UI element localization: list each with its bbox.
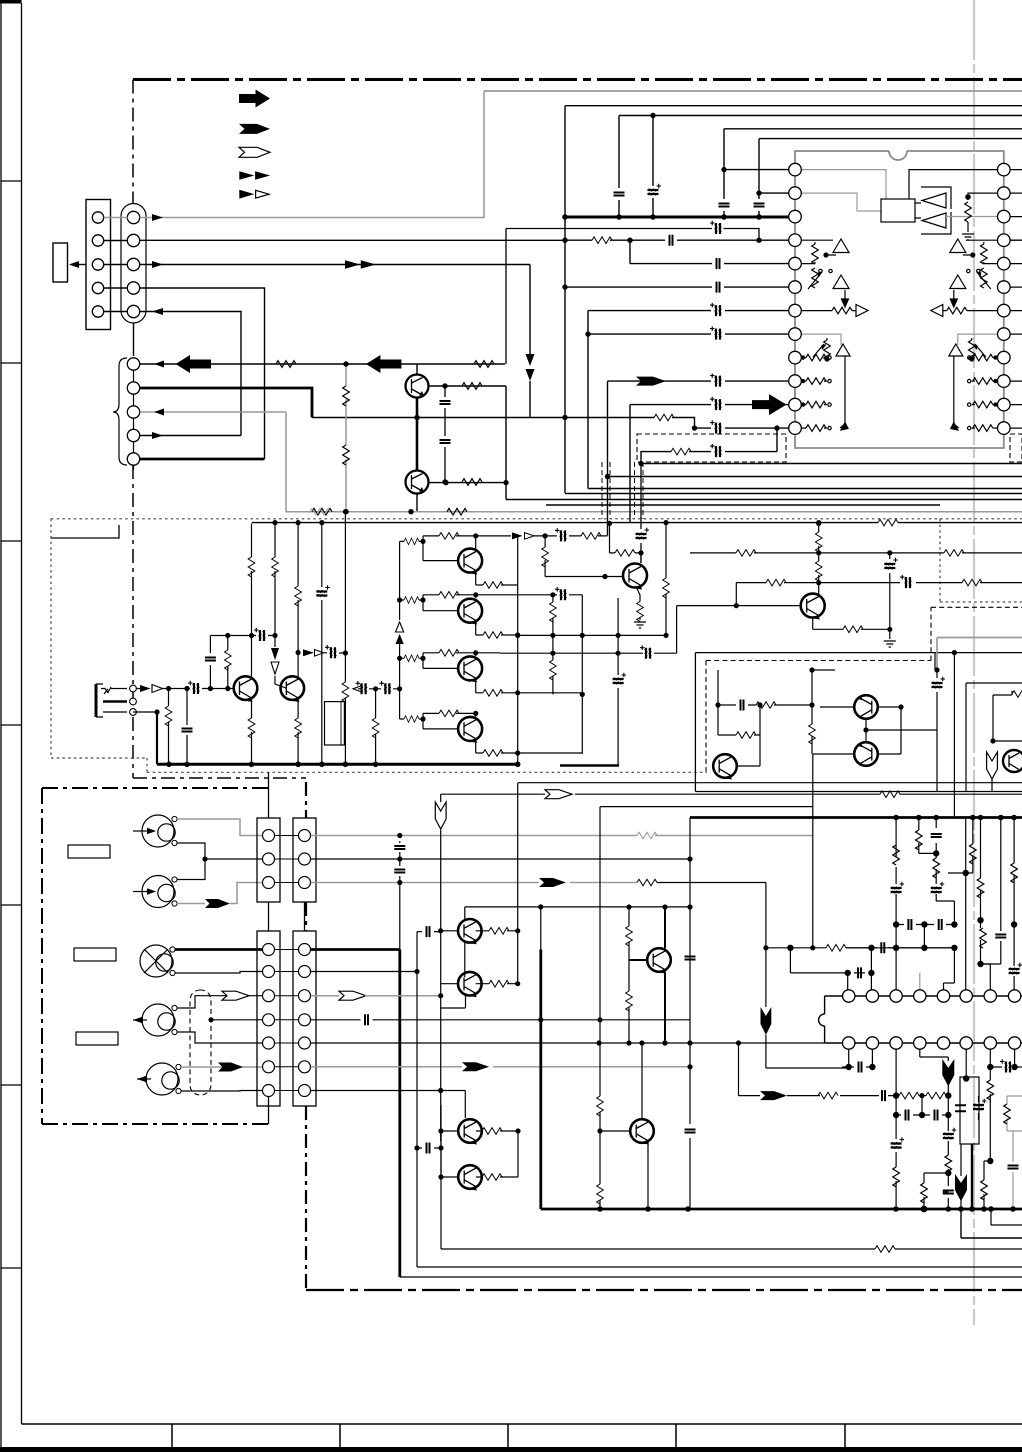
top-left black cap [0,0,22,4]
vertical 275 with down arrows to Q2 base [275,524,286,688]
bottom long lines [400,1276,1022,1278]
row 417.5 to pin12 [565,418,789,429]
legend flag arrow solid [239,124,270,134]
pin6 row [565,286,789,288]
ladder row 3 [400,653,500,669]
pin circles [92,211,139,317]
dashed box at IC1 bottom-left [637,434,786,462]
pin8 row [588,333,789,335]
Q pair (470,930.8)/(470,983.7) [416,932,418,1267]
emitter to ground [813,618,890,630]
big left block arrow [176,355,211,373]
gray wire 228.5 from vertical 506 [506,229,759,365]
wires right of connector [311,835,813,837]
open flag arrows on row 995.7 [222,991,249,1000]
page frame: left margin column [1,0,22,1452]
inter-connector links [275,836,299,1091]
row4 with right arrow [140,435,241,437]
wire pin3 [104,264,530,266]
wire y=128.8 + vertical 724 [724,129,1022,217]
lamp 2 [133,876,175,908]
lamp 4 [133,1004,175,1036]
bias dividers below input [168,689,170,765]
lamp 5 [137,1063,179,1095]
pin4 row: from CN101 pin2 [565,239,789,241]
tab corner solid [51,525,119,538]
IC2 pin circles [843,990,1021,1049]
row 1090.5 [311,1091,466,1119]
vertical 321.8 with ecap [321,524,323,765]
Q 812.7,605.6 cluster [818,523,820,594]
row2 thick [140,388,312,418]
resistors on row1 [276,361,494,368]
dashed cable bundle [190,990,211,1095]
connector body left [86,200,111,330]
right edge network [966,683,1022,792]
legend triangle solid+open [239,190,254,199]
vertical 345.4 [344,512,346,765]
row 1019.8 [311,1019,690,1021]
double arrows on pin3 wire [345,260,376,269]
transistor Q dashed-box [713,754,737,778]
ladder row 2 [400,595,583,754]
network below IC2 [842,1049,1022,1212]
gray wire 637.5 [937,638,1022,671]
row 995.7 gray [311,995,441,997]
vertical 611.8 to resistor feed [610,523,642,553]
transistor Q pair-B top [458,1119,482,1143]
transistor Q ladder3 [458,656,482,680]
ecap at 935,688 area [934,653,936,670]
below-bus drops [961,1209,1022,1238]
legend flag arrow open [239,147,270,157]
second big left arrow on row1 [366,355,401,373]
wire pin5 [104,312,241,436]
bottom border line [22,1423,1022,1425]
row 1043 [311,1042,825,1044]
dashed verticals under dashed box [602,462,643,519]
legend block arrow solid [239,90,270,108]
Q at 642,1131 [600,1112,630,1209]
open chevron down at 992 [987,752,998,779]
gray fold line vertical [973,0,975,1325]
pin1 row wire [724,169,789,171]
tall rect + thick drop [960,1077,979,1144]
line 635.5 with cap/res risers [210,635,275,637]
transistor Q pair-A top [458,919,482,943]
row 582.6 [736,582,1022,584]
pin7 row + vertical 588 [588,311,789,489]
row 552.9 [690,553,1022,629]
vertical double-down-arrow line at x=530 [529,265,531,355]
transistor Q right-edge (partial) [1003,750,1022,772]
legend double triangle solid [239,171,270,180]
transistor Q amp1 [234,676,258,700]
row 605.6 base [654,606,801,654]
VCA blocks [801,239,998,317]
wire y=138.6 + vertical 759 [759,139,1022,217]
pin11 row + block arrow + vertical 630b [630,405,789,522]
wire y=115.5 + verticals 619,653 [619,116,1022,218]
vertical 666 network [665,523,667,636]
ladder row 4 [400,713,476,729]
transistor Q pair-B bottom [458,1165,482,1189]
bottom tick marks [172,1424,845,1447]
small rect terminal left [53,243,68,282]
transistor Q PNP1 [854,695,878,719]
caps between rows at 399.8 [399,841,401,950]
IC1 internals [801,170,998,240]
pin10 row + flag arrow + vertical 607 [608,381,789,535]
input coupling [188,681,200,694]
row5 thick [140,458,265,461]
thick collector join [416,398,419,471]
tone blocks [801,334,998,431]
dashed box row 451.6 [641,428,777,462]
MAIN boundary dash-dot [133,80,1022,1291]
transistor Q amp2 [281,676,305,700]
row1: wire with left arrows [140,363,505,365]
open chevron down arrow at 440.7 [440,794,442,802]
row 947.8 [766,947,955,949]
transistor Q mid-bottom [647,948,671,972]
wire y=105.7 + vertical 565 [565,106,1022,493]
gray bus additions [310,508,330,515]
thick bus 1209 [541,1208,1022,1211]
vertical 641 solid to cap [640,462,642,563]
vertical 954 [953,653,955,818]
row3 gray with left arrow [140,411,286,413]
right columns below [984,1049,990,1209]
cap feed [417,1105,441,1160]
wire pin1 gray [104,91,484,218]
vertical 545 to row 576.5 [545,536,605,577]
transistor Q bottom-mid [630,1119,654,1143]
Q amp1 collector/emitter [251,524,253,677]
transistor Q right [801,594,825,618]
PNP pair [813,707,854,754]
gray wire y=90.5 [484,90,1022,92]
thick ground bus [157,763,518,766]
big down arrow at 765 [761,1007,772,1035]
bus 522.6 [252,522,1022,524]
wire pin2 [104,239,565,241]
bottom black bar [0,1447,1022,1452]
transistor Q ladder4 [458,717,482,741]
lamp 3 (with X) [140,945,173,977]
wires from Q collectors right [429,386,507,500]
ladder row 1 [400,536,511,561]
curly brace [113,358,127,465]
row 971.5 [311,971,417,973]
transistor Q mid-right [623,564,647,588]
IC1 pin circles + right stubs [789,163,1022,434]
gray vertical x=346 with resistors [345,364,347,511]
thick bus y=217 to pin3 [565,216,789,219]
label rects [68,845,118,1045]
transistor Q ladder2 [458,599,482,623]
pin2 row wire [759,192,789,194]
lamp 1 [133,815,175,847]
transistor Q ladder1 [458,549,482,573]
pin5 row from vertical 630 [630,240,789,263]
caps right of Q pair [444,386,446,482]
right [958,334,998,345]
long horizontal lines right half [608,476,1022,478]
left [801,334,841,345]
(ground inside IC1) [966,195,970,199]
wire 794.2 with open chevron + open flag [441,793,1022,795]
network above IC2 [788,818,1022,990]
mid rows 635.4/653.2 + vertical 618.1 [500,635,666,653]
ladder vertical [399,541,401,719]
right (mirror) [966,240,998,263]
connector body right (stadium) [121,204,146,324]
component rect [325,702,345,745]
transistor Q pair-A bottom [458,972,482,996]
gray wire row3 path down [286,412,1022,512]
row 1066.8 gray with flag [311,1066,690,1068]
row 949.5 thick [311,950,400,1278]
amp arrow after jack [136,688,140,690]
wire pin4 [104,288,265,459]
flag arrow on row 1095.6 [739,1043,761,1096]
arrow to terminal [71,264,86,266]
wire from stadium bottom down [133,323,135,356]
row 652.8 output of amp2 [303,649,314,656]
transistor Q PNP2 [854,742,878,766]
left [801,240,833,263]
vertical 937 black below [934,667,939,672]
